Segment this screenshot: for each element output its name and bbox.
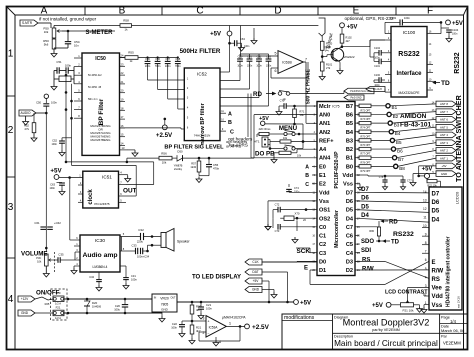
wire c102 c101 left: [373, 53, 375, 62]
svg-text:TO ANTENNA SWITCHER: TO ANTENNA SWITCHER: [454, 94, 463, 182]
wire IC50 pins join: [73, 67, 75, 71]
svg-text:R55: R55: [128, 51, 134, 55]
svg-text:10k: 10k: [37, 259, 42, 263]
capacitor C54: [67, 31, 69, 41]
svg-text:Vee: Vee: [432, 286, 443, 292]
capacitor C51: [56, 67, 58, 73]
wire 500hz top: [138, 57, 178, 59]
capacitor C52b: [65, 67, 67, 73]
svg-text:A4: A4: [319, 147, 327, 153]
grid row dividers: [7, 95, 16, 97]
jumper JP: [278, 92, 282, 96]
capacitor C102: [378, 50, 380, 56]
resistor R80: [377, 227, 380, 236]
resistor R75: [279, 151, 291, 154]
svg-text:C20: C20: [115, 304, 121, 308]
resistor R57: [198, 158, 200, 161]
svg-text:B: B: [228, 120, 232, 126]
svg-text:GND: GND: [252, 288, 260, 292]
svg-text:3: 3: [203, 317, 205, 321]
capacitor C73: [272, 218, 274, 227]
svg-text:D1: D1: [319, 268, 326, 274]
ground IC51 pin4: [123, 174, 128, 176]
flag CLK: [245, 259, 262, 265]
svg-text:R/W: R/W: [362, 266, 374, 272]
svg-text:C101: C101: [374, 65, 380, 68]
capacitor C33 C34: [122, 250, 136, 252]
svg-text:D4: D4: [346, 216, 354, 222]
title block frame: [282, 314, 468, 350]
svg-text:B1: B1: [346, 156, 353, 162]
wire audio in: [36, 112, 46, 114]
svg-text:+5V: +5V: [253, 279, 260, 283]
svg-text:+2.5V: +2.5V: [252, 324, 270, 331]
wire IC50 left stubs to rails: [66, 74, 74, 76]
wire IC30 out rail: [121, 237, 123, 252]
audio test point: [44, 94, 48, 98]
svg-text:DAT: DAT: [252, 270, 258, 274]
svg-text:ANT 4: ANT 4: [440, 133, 448, 137]
svg-text:+5V: +5V: [441, 164, 446, 168]
pushbutton MENU: [284, 132, 287, 135]
wire cap row top: [240, 53, 269, 55]
svg-text:C103: C103: [390, 16, 397, 20]
wire D7: [355, 191, 429, 194]
wire Q100 emitter: [338, 61, 340, 63]
svg-text:D7: D7: [361, 187, 369, 193]
svg-text:R73 OPT: R73 OPT: [361, 118, 372, 121]
VR20 regulator box: [152, 294, 177, 312]
capacitor C20: [124, 299, 126, 304]
svg-text:LCD CONTRAST: LCD CONTRAST: [385, 290, 428, 296]
svg-text:C: C: [230, 130, 234, 136]
wire opamp plus in: [192, 320, 206, 322]
wire lcd vdd: [424, 295, 429, 297]
IC51 clock box: [83, 171, 119, 208]
IC100 right pins: [427, 33, 441, 35]
svg-text:1N4006: 1N4006: [92, 304, 102, 308]
svg-text:470n: 470n: [213, 166, 220, 170]
wire C54 to R50 bottom: [54, 47, 68, 49]
svg-text:Pin5-GND: Pin5-GND: [351, 97, 362, 100]
svg-text:2: 2: [8, 125, 14, 136]
svg-text:VE2EMM: VE2EMM: [443, 341, 461, 346]
wire staircase C40: [239, 61, 241, 80]
svg-text:Par: Par: [441, 335, 448, 339]
svg-text:B6: B6: [397, 148, 403, 153]
svg-text:D4: D4: [432, 217, 440, 223]
wire opamp63 out: [303, 61, 306, 63]
svg-text:BP Filter: BP Filter: [98, 98, 105, 125]
svg-text:REF+: REF+: [319, 138, 334, 144]
svg-text:GND: GND: [441, 172, 447, 176]
svg-text:R72 OPT: R72 OPT: [361, 109, 372, 112]
capacitor C32: [140, 233, 142, 240]
wire 500hz to MCU AN1: [305, 101, 307, 123]
svg-text:HD44780 intelligent controller: HD44780 intelligent controller: [446, 236, 452, 307]
svg-text:C6: C6: [346, 234, 353, 240]
flag ANT 2: [436, 148, 456, 154]
svg-text:R77 OPT: R77 OPT: [361, 153, 372, 156]
resistor R102: [341, 28, 343, 34]
dashed link volume: [54, 252, 56, 272]
wire IC51 pin6 loop: [72, 164, 137, 166]
svg-text:C41: C41: [247, 55, 252, 59]
crystal X50: [59, 76, 71, 82]
capacitor C34: [98, 272, 100, 279]
svg-text:1/4: 1/4: [450, 319, 456, 324]
svg-text:LCD20: LCD20: [455, 191, 460, 204]
capacitor C22: [182, 320, 192, 322]
svg-text:+: +: [208, 320, 210, 324]
svg-text:E2: E2: [319, 182, 326, 188]
svg-text:par/by VE2EMM: par/by VE2EMM: [372, 328, 400, 332]
svg-text:Q100: Q100: [324, 45, 332, 49]
svg-text:C3: C3: [319, 251, 326, 257]
capacitor C50: [43, 103, 49, 105]
svg-text:220u: 220u: [137, 239, 144, 243]
resistor R50: [52, 39, 56, 49]
resistor R56: [159, 156, 172, 160]
svg-text:Speaker: Speaker: [177, 240, 190, 244]
svg-text:10n: 10n: [74, 44, 79, 48]
svg-text:100n: 100n: [65, 64, 72, 68]
IC50 right pin stubs: [120, 57, 126, 59]
capacitor C47: [167, 58, 169, 62]
svg-text:Main board / Circuit principal: Main board / Circuit principal: [334, 339, 438, 348]
wire sig to AN0: [253, 115, 255, 159]
ground opamp: [215, 337, 217, 340]
flag ANT 8: [436, 101, 456, 107]
svg-text:B: B: [305, 173, 309, 179]
potentiometer P50: [52, 28, 56, 38]
resistor R21: [191, 320, 194, 323]
svg-text:FB-43-101: FB-43-101: [400, 122, 431, 129]
wire 5V rail out: [177, 301, 294, 303]
svg-text:100n: 100n: [51, 100, 57, 104]
svg-text:D7: D7: [346, 190, 353, 196]
ground IC30 pin4: [73, 266, 75, 268]
svg-text:4k7: 4k7: [196, 329, 201, 333]
svg-text:modifications: modifications: [284, 315, 315, 321]
svg-text:5k6: 5k6: [44, 43, 49, 47]
svg-text:5: 5: [275, 52, 277, 56]
svg-text:ANT 2: ANT 2: [440, 149, 448, 153]
svg-text:6: 6: [425, 258, 427, 262]
resistor R71: [294, 106, 296, 109]
svg-text:R76 OPT: R76 OPT: [361, 144, 372, 147]
capacitor row C40-C43: [239, 54, 241, 59]
capacitor C103: [399, 19, 401, 25]
svg-text:C73: C73: [275, 229, 280, 233]
label TD top: [433, 81, 436, 84]
speaker: [161, 233, 166, 248]
flag GND: [18, 310, 35, 316]
svg-text:+C62: +C62: [54, 221, 61, 225]
svg-text:10k: 10k: [283, 136, 288, 140]
svg-text:500 HZ PHASE: 500 HZ PHASE: [306, 68, 312, 104]
resistor R73: [259, 132, 269, 135]
svg-text:B2: B2: [346, 147, 353, 153]
potentiometer P21: [401, 303, 414, 307]
svg-text:Vss: Vss: [343, 182, 353, 188]
wire header verticals: [247, 94, 249, 138]
svg-text:IN: IN: [154, 297, 157, 300]
wire s-meter top rail: [54, 25, 120, 27]
wire D6: [355, 201, 429, 203]
flag ANT 6: [436, 117, 456, 123]
svg-text:TD: TD: [441, 80, 450, 87]
wire rail left B: [71, 84, 73, 166]
svg-text:420 Ohms: 420 Ohms: [259, 127, 272, 131]
svg-text:1/2 A: 1/2 A: [55, 316, 61, 320]
svg-text:C43: C43: [266, 55, 271, 59]
svg-text:C31: C31: [131, 274, 136, 278]
flag AUDIO: [19, 110, 36, 116]
svg-text:F: F: [427, 6, 433, 17]
svg-text:E1: E1: [319, 173, 326, 179]
wire jp to gps: [290, 93, 344, 95]
svg-text:Vss: Vss: [432, 303, 443, 309]
svg-text:11: 11: [423, 215, 427, 219]
op-amp IC63B: [278, 51, 303, 74]
wire Q100 collector: [338, 47, 342, 49]
svg-text:narrow BP filter: narrow BP filter: [200, 102, 206, 144]
capacitor C101: [378, 59, 380, 65]
svg-text:C35: C35: [58, 253, 64, 257]
svg-text:B6: B6: [346, 112, 353, 118]
+5V Q100: [340, 23, 345, 28]
svg-text:100n: 100n: [404, 16, 410, 20]
+2.5V node: [162, 125, 167, 130]
svg-text:Vss: Vss: [319, 199, 329, 205]
svg-text:opt headers: opt headers: [228, 136, 253, 141]
IC50 BP Filter box: [82, 53, 120, 155]
capacitor C46: [147, 58, 149, 62]
wire IC50 out to OUT: [153, 162, 155, 185]
ground VR20: [161, 312, 163, 316]
capacitor C56: [157, 58, 159, 62]
flag ant +5V: [436, 163, 456, 169]
svg-text:S-MTR: S-MTR: [22, 21, 33, 25]
ground ant: [413, 173, 436, 175]
svg-text:P3C: P3C: [36, 256, 41, 260]
svg-text:C100: C100: [374, 74, 381, 77]
svg-text:D6: D6: [432, 200, 440, 206]
wire C0 gnd arrow: [297, 226, 317, 228]
svg-text:OUT: OUT: [170, 297, 176, 300]
svg-text:C: C: [196, 6, 203, 17]
connector TTL: [319, 18, 325, 36]
fuse dashed box: [51, 289, 68, 320]
svg-text:March 06, 06: March 06, 06: [441, 328, 465, 333]
svg-text:10k: 10k: [297, 154, 302, 158]
svg-text:D3: D3: [346, 260, 353, 266]
svg-text:SDO: SDO: [361, 239, 374, 245]
flag ANT 4: [436, 132, 456, 138]
diode D20: [86, 299, 88, 301]
svg-text:10k: 10k: [44, 30, 49, 34]
ground audio flag: [25, 116, 27, 119]
svg-text:C74: C74: [294, 186, 299, 190]
svg-text:74HC4051N: 74HC4051N: [194, 134, 211, 138]
svg-text:A: A: [41, 6, 48, 17]
svg-text:B7: B7: [398, 157, 404, 162]
svg-text:E: E: [353, 6, 360, 17]
svg-text:D6: D6: [346, 199, 353, 205]
IC30 right pins: [120, 236, 122, 238]
capacitor C76 C77 decoupling: [355, 174, 368, 176]
svg-text:27k: 27k: [326, 66, 331, 70]
svg-text:2N2222: 2N2222: [344, 55, 355, 59]
svg-text:ext 2X16: ext 2X16: [457, 296, 461, 308]
svg-text:LM386N-4: LM386N-4: [93, 265, 108, 269]
border inner frame: [15, 14, 464, 16]
svg-text:R101: R101: [326, 63, 333, 67]
svg-text:PIC12F675: PIC12F675: [94, 202, 110, 206]
antenna wires to flags: [390, 104, 436, 106]
svg-text:50·4F50·4x2: 50·4F50·4x2: [88, 74, 102, 77]
svg-text:ANT 5: ANT 5: [440, 125, 448, 129]
svg-text:R78 OPT: R78 OPT: [361, 161, 372, 164]
svg-text:E: E: [432, 260, 436, 266]
svg-text:IC75: IC75: [332, 105, 339, 109]
svg-text:C33: C33: [132, 243, 137, 247]
potentiometer P30 volume: [45, 254, 49, 266]
wire RW cross: [355, 269, 429, 271]
svg-text:A: A: [305, 165, 309, 171]
svg-text:IC50: IC50: [95, 56, 106, 62]
svg-text:+5V: +5V: [210, 32, 221, 38]
transistor Q100: [331, 48, 344, 61]
IC51 right pins: [119, 174, 124, 176]
svg-text:C63: C63: [50, 183, 55, 187]
svg-text:D20: D20: [92, 301, 98, 305]
fuse F20: [53, 296, 64, 302]
svg-text:100n: 100n: [294, 190, 300, 193]
svg-text:1k43: 1k43: [190, 165, 196, 169]
svg-text:+12V: +12V: [21, 297, 29, 301]
svg-text:C7: C7: [346, 225, 353, 231]
svg-text:SDI: SDI: [361, 248, 371, 254]
svg-text:B3: B3: [346, 138, 353, 144]
svg-text:D7: D7: [432, 192, 440, 198]
flag GND led: [245, 287, 262, 293]
svg-text:D2: D2: [346, 268, 353, 274]
svg-text:C72: C72: [275, 203, 280, 207]
svg-text:C50: C50: [36, 100, 41, 104]
wire IC50 pin16 to IC52: [120, 127, 182, 129]
flag ANT 5: [436, 124, 456, 130]
svg-text:ANT 3: ANT 3: [440, 141, 448, 145]
svg-text:ANT 7: ANT 7: [440, 110, 448, 114]
wire opamp feedback: [239, 326, 241, 341]
svg-text:F20: F20: [56, 291, 61, 295]
wire sig level left: [66, 161, 154, 163]
svg-text:100n: 100n: [171, 325, 177, 329]
IC30 left pins: [74, 239, 80, 241]
svg-text:58m·4 m: 58m·4 m: [88, 98, 97, 101]
LCD20 box: [429, 187, 462, 310]
svg-text:B7: B7: [346, 104, 353, 110]
flag pin4 GPS: [344, 88, 374, 94]
ground R52: [33, 133, 35, 136]
wire D50 out: [183, 157, 255, 159]
svg-text:Vdd: Vdd: [319, 190, 330, 196]
svg-text:if not installed, ground wiper: if not installed, ground wiper: [39, 17, 97, 22]
+5V mclr: [261, 121, 265, 125]
svg-text:+5V: +5V: [50, 168, 62, 175]
wire P50 wiper node: [62, 30, 68, 32]
svg-text:5: 5: [425, 267, 427, 271]
+5V IC100: [440, 21, 443, 24]
svg-text:100n: 100n: [49, 187, 55, 190]
svg-text:−: −: [208, 331, 210, 335]
svg-text:D5: D5: [361, 204, 369, 210]
svg-text:E0: E0: [319, 164, 326, 170]
svg-text:IC30: IC30: [95, 238, 105, 244]
svg-text:RS: RS: [362, 257, 370, 263]
svg-text:D5: D5: [346, 208, 353, 214]
corner diagonal top-right: [464, 7, 468, 16]
svg-text:B3: B3: [394, 123, 400, 128]
svg-text:+5V: +5V: [259, 116, 269, 122]
svg-text:Page: Page: [441, 315, 450, 319]
svg-text:RD: RD: [389, 219, 398, 225]
svg-text:6: 6: [275, 69, 277, 73]
svg-text:R75 OPT: R75 OPT: [361, 135, 372, 138]
IC100 left pins: [385, 33, 391, 35]
grid column dividers: [84, 7, 86, 16]
flag pin GND: [344, 95, 364, 100]
svg-text:D0: D0: [319, 260, 326, 266]
wire led gnd: [262, 289, 274, 291]
svg-text:AUDIO: AUDIO: [20, 111, 31, 115]
svg-text:IC51: IC51: [102, 175, 112, 180]
wire +2.5V net: [120, 118, 185, 120]
wire rail 12V: [64, 298, 152, 300]
svg-text:Mclr: Mclr: [319, 104, 331, 110]
svg-text:D6: D6: [361, 196, 369, 202]
IC100 box: [391, 27, 427, 98]
wire +12V to fuse: [35, 297, 53, 300]
svg-text:optionnal, GPS, RS-232: optionnal, GPS, RS-232: [344, 16, 393, 21]
+5V circle bottom: [294, 300, 299, 305]
svg-text:OS2: OS2: [319, 216, 330, 222]
flag +5V led: [245, 278, 262, 284]
wire staircase C42: [258, 61, 260, 97]
svg-text:µMAX4162CPA: µMAX4162CPA: [222, 315, 246, 319]
svg-text:R/W: R/W: [432, 269, 444, 275]
svg-text:R74 OPT: R74 OPT: [361, 127, 372, 130]
svg-text:1: 1: [8, 49, 14, 60]
svg-text:100n: 100n: [206, 306, 212, 310]
wire staircase C41: [249, 61, 251, 89]
svg-text:clock: clock: [88, 189, 94, 205]
svg-text:C0: C0: [319, 225, 326, 231]
svg-text:3: 3: [8, 202, 14, 213]
svg-text:Vdd: Vdd: [432, 294, 444, 300]
svg-text:R57: R57: [191, 162, 196, 166]
ground under R50: [53, 49, 55, 51]
svg-text:4: 4: [219, 340, 221, 344]
resistor R101: [321, 57, 323, 62]
capacitor C72: [280, 209, 317, 211]
capacitor C35: [57, 257, 59, 263]
svg-text:C: C: [305, 182, 309, 188]
wire D5: [355, 210, 429, 213]
flag ANT 1: [436, 155, 456, 161]
